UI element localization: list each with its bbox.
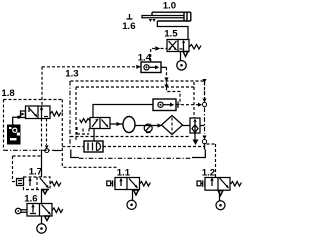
valve 1.7 bbox=[24, 177, 51, 190]
check valve 1.4 bbox=[141, 62, 161, 73]
cylinder 1.0 bbox=[142, 12, 191, 22]
compressor box bbox=[84, 141, 103, 152]
inner dashed box bbox=[13, 87, 195, 156]
arrowhead before filter bbox=[158, 123, 162, 127]
air source bottom left bbox=[37, 224, 46, 233]
pilot line to 1.2 bbox=[207, 144, 216, 177]
exhaust triangle 1.1 bbox=[134, 190, 139, 195]
wire cylinder port to valve 1.5 bbox=[157, 21, 188, 40]
vertical dashed at 194 bbox=[193, 82, 195, 118]
line reservoir to filter bbox=[135, 125, 162, 127]
exhaust triangle 1.5 bbox=[183, 52, 188, 57]
spring 1.2 bbox=[231, 182, 242, 187]
air source 1.2 bbox=[216, 201, 225, 210]
regulator top port to main line bbox=[93, 105, 153, 118]
pilot drop to valve 1.7 bbox=[13, 156, 17, 182]
spring 1.1 bbox=[140, 182, 151, 187]
check arrow to reservoir bbox=[110, 123, 123, 125]
pilot lines below valve 1.8 bbox=[41, 119, 43, 148]
air source 1.5 bbox=[177, 61, 186, 70]
spring 1.6 bbox=[52, 208, 63, 213]
pilot arrow into 1.5 bbox=[151, 49, 167, 63]
line filter to lubricator bbox=[183, 125, 191, 127]
svg-text:1.0: 1.0 bbox=[163, 0, 176, 11]
connector circle right mid bbox=[176, 82, 207, 107]
filter diamond bbox=[162, 116, 183, 135]
spring 1.7 bbox=[50, 182, 61, 187]
main rail bbox=[41, 150, 43, 178]
svg-text:1.7: 1.7 bbox=[29, 167, 42, 178]
air reservoir bbox=[123, 117, 135, 133]
dashed box 1.8 bbox=[4, 100, 63, 151]
svg-text:1.5: 1.5 bbox=[164, 28, 178, 39]
manual actuator 1.2 bbox=[197, 180, 205, 186]
valve 1.8 bbox=[26, 106, 51, 119]
marker T for 1.6 position bbox=[127, 14, 133, 19]
pressure regulator bbox=[90, 118, 110, 129]
svg-text:1.6: 1.6 bbox=[122, 21, 135, 32]
roller of 1.6 bbox=[15, 208, 27, 214]
regulator spring bbox=[80, 119, 90, 123]
compressor lines bbox=[62, 146, 84, 148]
air source 1.1 bbox=[127, 200, 136, 209]
valve 1.2 bbox=[205, 177, 230, 190]
manual actuator 1.1 bbox=[107, 180, 115, 186]
pilot line from timer to 1.8 bbox=[13, 117, 21, 125]
exhaust triangle 1.6 bbox=[45, 216, 50, 221]
timer component bbox=[8, 125, 21, 144]
supply line 1.1 bbox=[132, 190, 134, 201]
valve 1.5 bbox=[167, 40, 189, 52]
actuator box 1.7 bbox=[17, 179, 24, 186]
pilot line to 1.4 bbox=[42, 66, 136, 68]
connector circle 2 bbox=[202, 136, 206, 147]
pilot sense line bbox=[71, 136, 191, 138]
pilot line to 1.1 bbox=[64, 166, 117, 168]
check valve box 2 bbox=[153, 99, 178, 111]
valve 1.1 bbox=[115, 178, 140, 190]
corner piece below connector 2 bbox=[204, 144, 206, 150]
pilot line down-left rail bbox=[41, 67, 43, 106]
regulator pilot loop bbox=[77, 127, 89, 134]
lubricator bbox=[190, 118, 200, 133]
supply line 1.2 bbox=[219, 190, 221, 201]
relief valve on line bbox=[144, 124, 152, 133]
regulator bottom port bbox=[93, 129, 95, 142]
service unit frame 1.3 bbox=[70, 81, 205, 149]
exhaust triangle 1.7 bbox=[43, 190, 48, 195]
drain triangle below lubricator bbox=[193, 140, 199, 146]
valve 1.6 bbox=[27, 204, 52, 217]
spring 1.8 bbox=[50, 112, 61, 117]
pilot box of 1.8 bbox=[21, 111, 26, 118]
arrow down at 1.3 top right bbox=[202, 79, 206, 83]
supply line 1.5 bbox=[180, 52, 182, 61]
spring of 1.5 bbox=[189, 45, 201, 50]
exhaust triangle 1.2 bbox=[218, 191, 223, 196]
supply elbow bbox=[71, 150, 79, 158]
supply down corner bbox=[61, 113, 63, 167]
svg-text:1.3: 1.3 bbox=[65, 69, 78, 80]
svg-text:1.6: 1.6 bbox=[24, 193, 37, 204]
service frame bottom dash-dot bbox=[79, 157, 192, 159]
pilot drop from 1.4 bbox=[161, 66, 167, 68]
svg-text:1.8: 1.8 bbox=[1, 88, 15, 99]
lubricator outlet stub bbox=[200, 125, 205, 127]
